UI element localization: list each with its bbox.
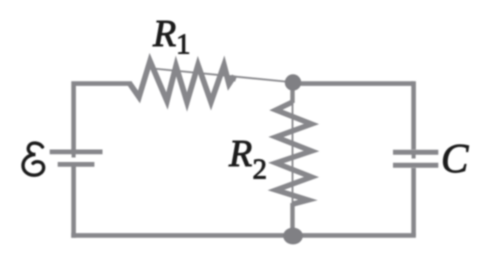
- wire bottom segment: [71, 233, 416, 238]
- junction node top: [285, 74, 301, 90]
- svg-text:R: R: [152, 13, 176, 55]
- capacitor C: [393, 152, 438, 165]
- resistor R2: [276, 86, 312, 230]
- junction node bottom: [283, 228, 303, 245]
- svg-text:R: R: [228, 133, 252, 175]
- svg-text:1: 1: [176, 29, 191, 61]
- svg-text:C: C: [441, 135, 469, 181]
- resistor R1: [130, 61, 290, 102]
- wire top-right segment: [292, 81, 414, 86]
- wire right upper segment: [411, 81, 416, 149]
- battery EMF source: [50, 152, 103, 165]
- label EMF script E: [23, 143, 44, 175]
- wire left lower segment: [71, 166, 76, 238]
- wire top-left segment: [74, 84, 132, 151]
- svg-text:2: 2: [253, 154, 268, 186]
- wire right lower segment: [411, 168, 416, 235]
